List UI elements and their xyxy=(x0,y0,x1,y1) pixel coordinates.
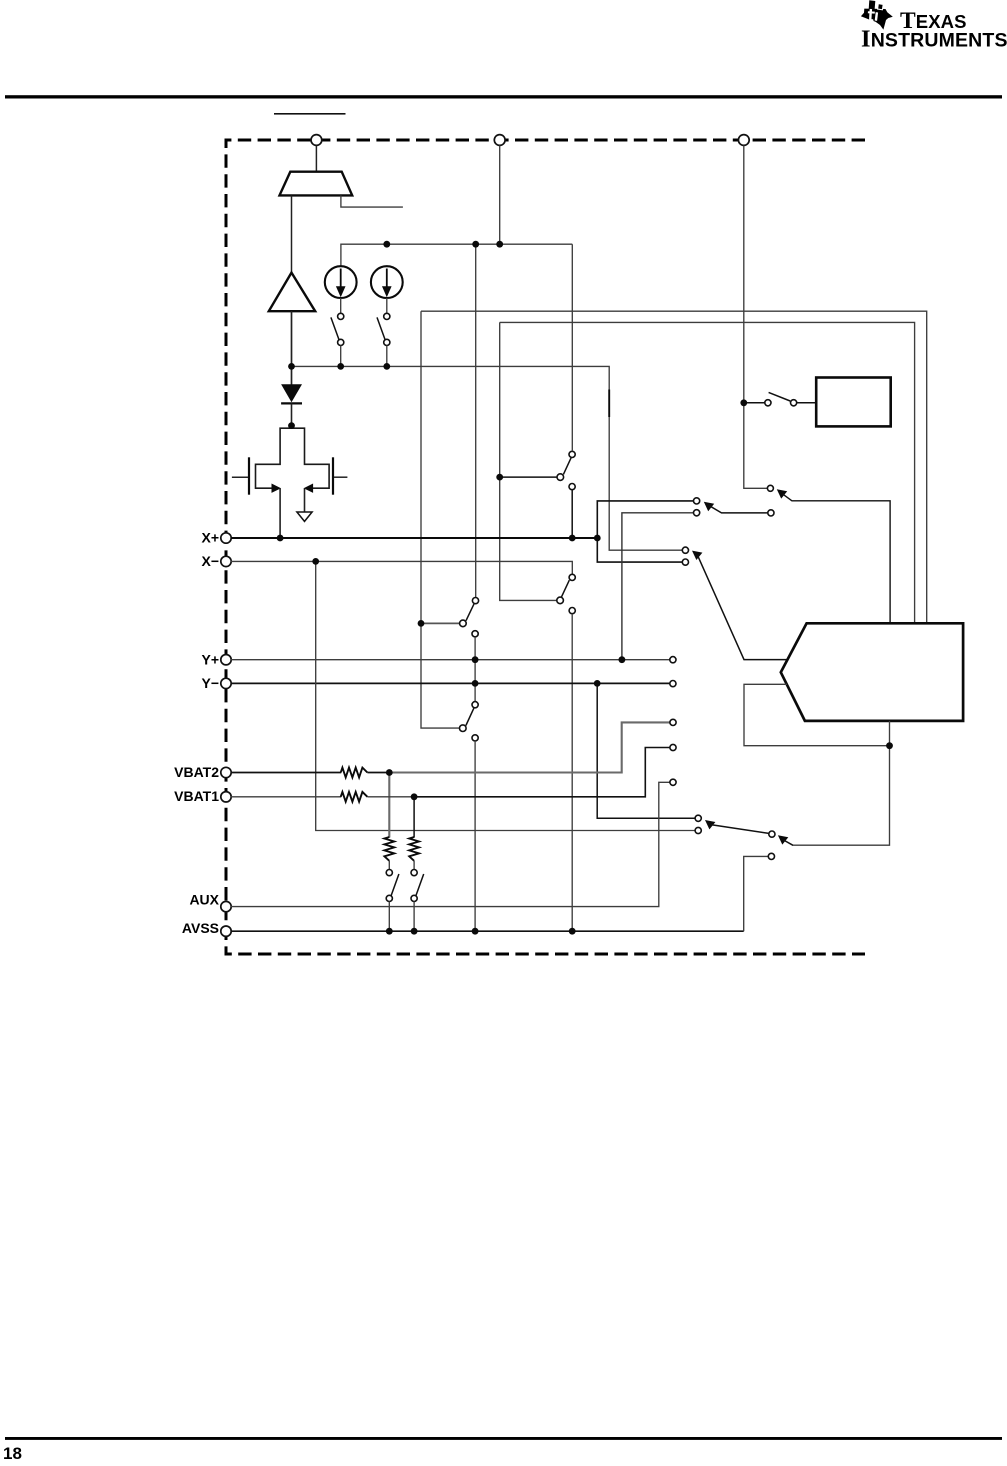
wire S_R1 to AVSS xyxy=(388,902,390,932)
wire pin VCC to mux xyxy=(315,145,317,171)
wire ADC lower input loop xyxy=(744,684,890,745)
pin Y+ terminal and label xyxy=(201,651,231,667)
transistor pair Q1 Q2 channel structure xyxy=(256,428,330,493)
wire column x421 driver xyxy=(421,311,459,728)
wire node to R4 xyxy=(413,797,415,838)
resistor R4 xyxy=(409,837,419,861)
switch S_A xyxy=(557,451,575,489)
wire ADC bottom to selector SW_E xyxy=(793,721,890,845)
dashed block boundary xyxy=(226,140,865,954)
wire Y- branch down to throw T1 xyxy=(597,683,695,818)
pin VBAT2 terminal and label xyxy=(174,764,231,780)
throw contact VBAT2 end xyxy=(670,719,676,725)
wire X- line to S_Xm xyxy=(231,561,573,574)
wire Q2 source to ground xyxy=(304,488,306,512)
pin Y- terminal and label xyxy=(201,675,231,691)
switch S1 xyxy=(460,598,479,637)
pin VREF terminal xyxy=(494,135,505,146)
transistor Q1 gate xyxy=(232,457,249,494)
pin X- terminal and label xyxy=(201,553,231,569)
wire rail to S_A upper throw xyxy=(571,244,573,451)
throw contact c4 xyxy=(682,559,688,565)
wire switch S_I2 to supply bus xyxy=(386,346,388,367)
wire pin IOVDD column xyxy=(744,145,768,488)
switch S_R2 xyxy=(411,870,424,902)
wire S_Xm lower throw to AVSS xyxy=(571,614,573,932)
wire buffer output down xyxy=(291,311,293,384)
wire VBAT1 lead xyxy=(231,796,341,798)
svg-text:Y−: Y− xyxy=(201,675,219,691)
pin X+ terminal and label xyxy=(201,530,231,546)
wire VBAT2 lead xyxy=(231,772,341,774)
wire mux enable stub xyxy=(341,195,403,207)
pin VBAT1 terminal and label xyxy=(174,788,231,804)
selector SW_B blade and arrow xyxy=(704,502,774,516)
wire S2 lower throw to AVSS xyxy=(474,741,476,931)
wire supply bus to switch throw c3 xyxy=(292,366,683,550)
throw contact T1 xyxy=(695,815,701,821)
throw contact c3 xyxy=(682,547,688,553)
switch S_A pole wire xyxy=(500,476,557,478)
throw contact c2 xyxy=(694,510,700,516)
short overline above dashed box xyxy=(274,113,346,115)
wire column x475 upper xyxy=(475,244,477,597)
pin AUX terminal and label xyxy=(189,891,231,912)
wire R4 to switch S_R2 xyxy=(413,861,415,870)
wire S1 lower to S2 upper xyxy=(474,637,476,702)
wire mux output down xyxy=(291,195,293,272)
switch S_Xm xyxy=(557,574,576,613)
wire R2 to node xyxy=(367,796,414,798)
svg-text:AUX: AUX xyxy=(189,891,219,907)
wire R3 to switch S_R1 xyxy=(388,861,390,870)
switch S_R1 xyxy=(386,870,399,902)
buffer amplifier A1 (triangle) xyxy=(269,273,315,312)
wire VBAT2 to throw xyxy=(389,722,670,772)
svg-text:X+: X+ xyxy=(201,530,219,546)
wire R1 to node xyxy=(367,772,389,774)
svg-text:AVSS: AVSS xyxy=(182,920,219,936)
TI logo Texas state mark xyxy=(861,0,893,29)
svg-text:X−: X− xyxy=(201,553,219,569)
top horizontal rule xyxy=(5,95,1002,98)
wire X+ line xyxy=(231,537,598,539)
pin AVSS terminal and label xyxy=(182,920,231,937)
switch SW_D pole wire xyxy=(744,402,765,404)
selector SW_F arrow and wire to ADC top xyxy=(767,485,890,623)
wire current source I2 bottom lead xyxy=(386,298,388,313)
throw contact Y+ end xyxy=(670,657,676,663)
current source I1 xyxy=(325,266,357,298)
wire Y+ line xyxy=(231,659,670,661)
ADC U3 (pentagon) xyxy=(781,623,963,721)
svg-text:VBAT2: VBAT2 xyxy=(174,764,219,780)
switch S1 pole wire xyxy=(421,622,460,624)
wire current source I1 bottom lead xyxy=(340,298,342,313)
wire feedback line y311 to ADC xyxy=(421,311,927,623)
wire X+ branch to throws c1 c4 xyxy=(597,501,693,562)
throw contact Y- end xyxy=(670,681,676,687)
ground symbol xyxy=(297,512,312,521)
transistor Q2 gate xyxy=(333,457,347,494)
throw contact T3 xyxy=(768,853,774,859)
svg-text:INSTRUMENTS: INSTRUMENTS xyxy=(861,26,1007,53)
switch SW_D xyxy=(765,392,797,406)
switch S_I1 xyxy=(331,313,344,345)
throw contact AUX end xyxy=(670,779,676,785)
svg-text:18: 18 xyxy=(3,1444,22,1461)
wire darker overlap segment on x609 xyxy=(608,390,610,418)
selector SW_C blade arrow to ADC input xyxy=(692,551,788,660)
svg-text:VBAT1: VBAT1 xyxy=(174,788,219,804)
bottom horizontal rule xyxy=(5,1437,1002,1440)
resistor R2 xyxy=(341,792,368,802)
wire SW_D to box U2 xyxy=(797,402,817,404)
current source I2 xyxy=(371,266,403,298)
resistor R1 xyxy=(341,768,368,778)
wire column x499 with S_A S_Xm poles xyxy=(500,322,557,600)
wire Y- line xyxy=(231,682,670,684)
switch S_I2 xyxy=(377,313,390,345)
wire S_A lower throw to X+ xyxy=(571,490,573,538)
throw contact VBAT1 end xyxy=(670,744,676,750)
wire node to R3 xyxy=(388,773,390,838)
switch S2 xyxy=(460,702,479,741)
selector SW_E blades and arrows xyxy=(705,820,793,845)
svg-text:Y+: Y+ xyxy=(201,651,219,667)
box U2 xyxy=(816,378,891,427)
wire switch S_I1 to supply bus xyxy=(340,346,342,367)
wire X- branch down to throw T2 xyxy=(316,561,695,830)
wire AVSS to throw T3 xyxy=(744,856,769,931)
diode D1 xyxy=(281,384,302,425)
pin IOVDD terminal xyxy=(738,135,749,146)
wire pin VREF stub down xyxy=(499,145,501,244)
wire VBAT1 to throw xyxy=(414,748,670,797)
mux U1 (trapezoid) xyxy=(280,172,353,196)
wire Y+ branch to throw c2 xyxy=(622,513,694,660)
wire AUX line to throw xyxy=(231,782,670,906)
resistor R3 xyxy=(384,837,394,861)
wire feedback line y322 to ADC xyxy=(500,322,915,623)
pin VCC terminal xyxy=(311,135,322,146)
wire current source rail y244 xyxy=(341,244,572,266)
wire S_R2 to AVSS xyxy=(413,902,415,932)
wire AVSS line xyxy=(231,930,744,932)
throw contact c1 xyxy=(694,498,700,504)
throw contact T2 xyxy=(695,827,701,833)
wire Q1 source to X+ xyxy=(279,488,281,538)
